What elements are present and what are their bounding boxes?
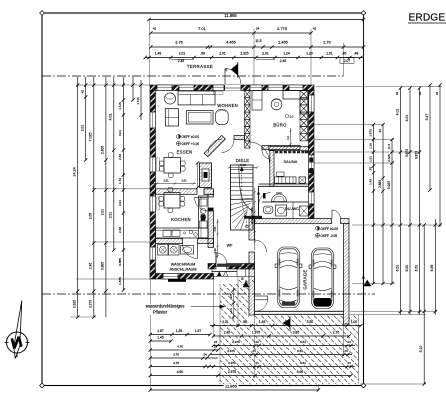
svg-text:3.76: 3.76 (173, 352, 179, 356)
bath door jamb marks (258, 193, 260, 196)
svg-text:18 Stg 17,5/28: 18 Stg 17,5/28 (250, 207, 254, 224)
svg-text:5.025: 5.025 (387, 181, 391, 189)
dash-dot line lower (section B-B) (42, 293, 375, 295)
svg-text:B: B (361, 276, 366, 279)
extension lines right side (316, 86, 442, 88)
wall segment wohnen-diele (234, 136, 245, 140)
terrace door swing arc (225, 69, 241, 85)
garage west wall lower (249, 252, 255, 315)
garage door entrance flag marker (289, 317, 291, 332)
svg-text:7.025: 7.025 (89, 133, 93, 142)
svg-text:1.26: 1.26 (176, 329, 183, 333)
buero south wall (262, 146, 300, 150)
bottom dimension total 11.865 (150, 389, 318, 391)
pillar kitchen wall east end (204, 189, 214, 195)
bottom dimension row 3.76 2.975 6.51 (150, 366, 355, 368)
east exterior wall (309, 91, 315, 219)
svg-text:4.01: 4.01 (395, 109, 399, 116)
svg-text:1.49: 1.49 (259, 320, 266, 324)
section marker B right (363, 280, 371, 286)
svg-text:6.51: 6.51 (300, 361, 306, 365)
sauna-bath dividing wall (259, 183, 309, 185)
window east 3 (309, 192, 315, 204)
svg-text:9.875: 9.875 (414, 151, 418, 159)
svg-text:2.76: 2.76 (333, 330, 340, 334)
svg-text:+8.5: +8.5 (229, 308, 233, 314)
svg-text:2.05: 2.05 (89, 213, 93, 220)
svg-text:7.01: 7.01 (198, 26, 207, 31)
svg-text:WF: WF (227, 244, 233, 248)
svg-text:2.975: 2.975 (227, 349, 235, 353)
svg-text:9.875: 9.875 (405, 149, 409, 157)
svg-text:2.01: 2.01 (219, 52, 226, 56)
sauna door swing arc (262, 151, 270, 159)
bath washbasin semicircle (272, 194, 287, 201)
kitchen wall mini dimension row (153, 183, 196, 185)
dash-dot line upper (terrace boundary) (42, 75, 344, 77)
laundry sink (181, 246, 194, 255)
vestibule door swing arc (249, 142, 270, 163)
diele mini dimension (229, 167, 257, 169)
svg-text:4.60: 4.60 (177, 370, 184, 374)
svg-text:1.74: 1.74 (118, 178, 122, 184)
wall hall west segment lower (208, 211, 214, 247)
bath sink counter (262, 201, 309, 203)
extension lines bottom (149, 279, 151, 391)
right dimension column 9.875 (419, 88, 421, 315)
top dimension row window openings (145, 57, 363, 59)
svg-text:1.20: 1.20 (306, 52, 313, 56)
svg-text:WOHNEN: WOHNEN (217, 103, 238, 108)
svg-text:3.775: 3.775 (277, 26, 288, 31)
svg-text:42: 42 (313, 27, 317, 31)
svg-text:24: 24 (344, 349, 348, 353)
svg-text:.45: .45 (342, 52, 347, 56)
garage north wall right part (341, 219, 350, 224)
entry south wall (227, 264, 255, 270)
right dimension column 4.01 a (400, 88, 402, 315)
svg-text:1.115: 1.115 (118, 102, 122, 110)
window north 5 (268, 85, 283, 91)
svg-text:6.51: 6.51 (405, 265, 409, 272)
sauna bench (slatted) (275, 177, 297, 183)
svg-text:3.76: 3.76 (173, 361, 179, 365)
svg-text:ESSEN: ESSEN (177, 150, 193, 155)
partition buero east (cross hatched boxes) (300, 91, 308, 141)
svg-text:2.625: 2.625 (73, 300, 77, 308)
right dimension column 4.01 b (409, 88, 411, 315)
svg-text:BÜRO: BÜRO (273, 123, 287, 128)
double door wohnen to diele arc (208, 139, 223, 153)
right dimension column 5.10 (423, 225, 425, 384)
buero mini level annotation (285, 114, 288, 117)
svg-text:6.51: 6.51 (300, 340, 306, 344)
window south laundry (163, 274, 178, 280)
svg-text:24: 24 (255, 361, 259, 365)
sauna small table (277, 172, 284, 176)
left dimension column 4.01 (113, 77, 115, 250)
north arrow compass (14, 301, 22, 359)
svg-text:24: 24 (347, 340, 351, 344)
svg-text:1.26: 1.26 (368, 143, 372, 149)
sofa left living (165, 109, 178, 126)
terrace entrance flag marker (237, 62, 239, 78)
svg-text:.76: .76 (368, 167, 372, 172)
window north 4 (250, 85, 262, 91)
svg-text:1.875: 1.875 (118, 277, 122, 285)
fireplace side dimension line (197, 163, 199, 188)
sauna interior lining row (275, 151, 308, 153)
garage level annotations OKFF (316, 226, 320, 230)
svg-text:2.01: 2.01 (81, 125, 85, 132)
svg-text:11.5: 11.5 (256, 39, 262, 43)
svg-text:2.01: 2.01 (179, 52, 186, 56)
svg-text:1.01: 1.01 (213, 226, 217, 232)
svg-text:42: 42 (153, 27, 157, 31)
bottom dimension row 24 2.975 24 6.51 24 (214, 345, 356, 347)
left dimension short columns (132, 77, 134, 100)
wall hall west segment upper (208, 194, 214, 197)
svg-text:2.51: 2.51 (109, 212, 113, 219)
stair walking line with arrow (242, 170, 247, 227)
right dimension column 6.99 (434, 219, 436, 315)
svg-text:1.115: 1.115 (136, 97, 140, 105)
svg-text:24: 24 (252, 349, 256, 353)
level annotation OKFF dining (177, 135, 181, 139)
extension lines left side (76, 84, 150, 86)
property boundary border (42, 13, 364, 386)
svg-text:3.885: 3.885 (118, 258, 122, 266)
buero office chair (271, 99, 282, 110)
top dimension row 7.01 / 3.775 (151, 32, 311, 34)
window west 2 (150, 157, 156, 172)
svg-text:.49: .49 (354, 52, 359, 56)
svg-text:1.975: 1.975 (252, 330, 260, 334)
svg-text:+9.5: +9.5 (229, 294, 233, 300)
bath washing machine (276, 205, 287, 216)
svg-text:B: B (240, 277, 245, 280)
threshold black bar west of garage top wall (244, 216, 262, 219)
right dimension column 5.47 (429, 85, 431, 190)
svg-text:4.455: 4.455 (226, 41, 236, 45)
radiator below north window (214, 92, 224, 95)
wohnen east mini dimension (290, 128, 292, 147)
radiator west essen (157, 158, 160, 171)
label wasserdurchlaessiges Pflaster with arrow (140, 304, 189, 309)
svg-text:2.01: 2.01 (118, 200, 122, 206)
svg-text:2.975: 2.975 (228, 370, 236, 374)
svg-text:3.885: 3.885 (101, 262, 105, 270)
svg-text:24: 24 (255, 340, 259, 344)
round armchair living (164, 93, 175, 104)
svg-text:42: 42 (81, 90, 85, 94)
svg-text:4.01: 4.01 (405, 115, 409, 122)
entrance marker triangles (217, 271, 222, 276)
right dimension column 5.025 (391, 140, 393, 284)
svg-text:ANSCHL.RAUM: ANSCHL.RAUM (170, 268, 197, 272)
kitchen counter right column (199, 196, 209, 238)
svg-text:1.01: 1.01 (163, 179, 169, 183)
svg-text:5.10: 5.10 (419, 346, 423, 353)
laundry door swing arc (183, 244, 198, 259)
svg-text:TERRASSE: TERRASSE (187, 64, 213, 69)
window north 1 (157, 85, 172, 91)
svg-text:2.975: 2.975 (228, 361, 236, 365)
car 2 in garage (309, 248, 336, 309)
right dimension column outer (439, 85, 441, 227)
svg-text:2.07: 2.07 (344, 59, 351, 63)
bottom dimension row 2.01 .96 1.49 5.50 1.00 (210, 325, 361, 327)
svg-text:1.49: 1.49 (155, 52, 162, 56)
svg-text:1.01: 1.01 (368, 156, 372, 162)
right dimension column cluster 1.875 (373, 125, 375, 284)
sauna heater (299, 177, 306, 183)
wall laundry north left (156, 239, 183, 244)
entrance door leaf and arc (215, 253, 217, 264)
svg-text:OKFF -0.05: OKFF -0.05 (321, 234, 338, 238)
radiator west kitchen (157, 197, 160, 210)
svg-text:2.46: 2.46 (118, 227, 122, 233)
washer and dryer (158, 245, 169, 256)
svg-text:1.45: 1.45 (157, 336, 164, 340)
svg-text:OKFF ±0.00: OKFF ±0.00 (182, 135, 200, 139)
partition buero west (cross hatched boxes) (245, 91, 251, 149)
svg-text:.99: .99 (200, 52, 205, 56)
svg-text:42: 42 (395, 92, 399, 96)
svg-text:2.46: 2.46 (89, 263, 93, 270)
armchair right living (216, 110, 229, 125)
svg-text:2.605: 2.605 (101, 146, 105, 154)
kitchen hob circles (189, 230, 193, 234)
svg-text:2.01: 2.01 (101, 209, 105, 216)
svg-text:6.51: 6.51 (414, 265, 418, 272)
svg-text:1.67: 1.67 (195, 329, 202, 333)
svg-text:42: 42 (418, 92, 422, 96)
svg-text:2.975: 2.975 (232, 340, 240, 344)
svg-text:2.315: 2.315 (240, 52, 248, 56)
svg-text:wasserdurchlässiges: wasserdurchlässiges (146, 304, 185, 309)
dining table with chairs (164, 158, 181, 174)
WF vertical dimension column (217, 219, 219, 258)
svg-text:2.45: 2.45 (178, 59, 185, 63)
sauna west wall (270, 151, 274, 187)
svg-text:1.875: 1.875 (368, 129, 372, 137)
left dimension column 14.24 (77, 77, 79, 317)
left dimension column 7.025 (93, 77, 95, 317)
bottom dimension row 4.60 2.975 6.99 (150, 375, 351, 377)
bath WC (263, 206, 273, 214)
svg-text:42: 42 (435, 92, 439, 96)
entry level annotation column (233, 287, 235, 320)
entrance steps (212, 267, 237, 272)
bottom dimension row 3.76 / 2.975 24 6.51 (150, 357, 218, 359)
svg-text:2.45: 2.45 (280, 59, 287, 63)
svg-text:GARAGE: GARAGE (303, 269, 308, 289)
svg-text:2.0: 2.0 (290, 114, 294, 118)
west exterior wall (150, 91, 156, 280)
staircase (231, 165, 254, 230)
svg-text:6.99: 6.99 (297, 370, 304, 374)
svg-text:2.01: 2.01 (262, 52, 269, 56)
left dimension column 1.115 cluster (122, 77, 124, 290)
garage side door leaf bottom left (255, 296, 268, 300)
svg-text:.96: .96 (242, 320, 247, 324)
svg-text:SAUNA: SAUNA (283, 160, 297, 164)
svg-text:5.47: 5.47 (425, 114, 429, 121)
svg-text:1.00: 1.00 (351, 320, 358, 324)
svg-text:11.865: 11.865 (225, 384, 238, 389)
svg-text:.51: .51 (378, 129, 382, 134)
svg-text:DU./WC: DU./WC (285, 207, 299, 211)
svg-text:2.39: 2.39 (213, 248, 217, 254)
svg-text:2.46: 2.46 (118, 154, 122, 160)
svg-text:KOCHEN: KOCHEN (171, 217, 191, 222)
bath west wall line (258, 186, 260, 218)
fireplace chimney block (200, 163, 212, 188)
svg-text:2.025: 2.025 (387, 154, 391, 162)
wall laundry north right (198, 239, 214, 244)
window east 1 (309, 95, 315, 112)
svg-text:2.455: 2.455 (278, 41, 288, 45)
threshold marks laundry (168, 279, 186, 282)
window west 1 (150, 112, 156, 128)
svg-text:OKFF +0.16: OKFF +0.16 (182, 142, 200, 146)
svg-text:24: 24 (214, 340, 218, 344)
window west 3 (150, 196, 156, 212)
garage west door swing arc (255, 240, 267, 252)
garage west wall upper (249, 219, 255, 240)
svg-text:6.51: 6.51 (395, 265, 399, 272)
coffee table living (186, 111, 213, 124)
sauna north wall (269, 146, 309, 150)
bottom dimension row 4.76 (150, 349, 218, 351)
svg-text:5.50: 5.50 (307, 320, 314, 324)
extension lines top (149, 20, 151, 85)
svg-text:2.885: 2.885 (378, 180, 382, 188)
kitchen door swing arc (195, 198, 209, 212)
svg-text:3.275: 3.275 (89, 300, 93, 308)
kitchen table with chairs (164, 193, 180, 209)
garage service door arc (331, 210, 333, 219)
top dimension row 3.76 4.455 2.455 2.70 (151, 46, 364, 48)
window north 6 (289, 85, 303, 91)
garage door (sectional) bottom (255, 310, 344, 312)
svg-text:1.43: 1.43 (368, 179, 372, 185)
svg-text:ERDGESCHOSS: ERDGESCHOSS (409, 13, 446, 24)
svg-text:Pflaster: Pflaster (153, 310, 168, 315)
svg-text:1.67: 1.67 (157, 329, 164, 333)
window north 2 (179, 85, 194, 91)
svg-text:11.865: 11.865 (224, 13, 237, 18)
svg-text:3.85: 3.85 (293, 330, 300, 334)
driveway boundary line (219, 284, 221, 384)
svg-text:2.70: 2.70 (323, 41, 330, 45)
svg-text:4.01: 4.01 (109, 114, 113, 121)
svg-text:1.01: 1.01 (181, 179, 187, 183)
svg-text:6.99: 6.99 (430, 265, 434, 272)
window north 3 (213, 85, 224, 91)
svg-text:24: 24 (347, 361, 351, 365)
left dimension column 2.605 (105, 77, 107, 317)
car 1 in garage (275, 247, 302, 308)
svg-text:1.24: 1.24 (283, 52, 290, 56)
kitchen counter bottom row (156, 228, 209, 238)
wall kitchen north (156, 189, 198, 195)
window east 2 (309, 155, 315, 170)
bottom dimension row 1.45 (150, 340, 171, 342)
svg-text:11.5: 11.5 (387, 143, 391, 149)
entrance threshold mat (217, 264, 242, 267)
north exterior wall (150, 85, 314, 91)
window west 4 (150, 247, 156, 260)
svg-text:OKFF ±0.00: OKFF ±0.00 (321, 227, 339, 231)
svg-text:4.76: 4.76 (177, 344, 183, 348)
svg-text:2.45: 2.45 (224, 330, 231, 334)
svg-text:14.24: 14.24 (73, 167, 77, 177)
sofa top living (178, 91, 215, 105)
buero desk (283, 91, 309, 100)
top dimension row total 11.865 (149, 19, 364, 21)
svg-text:3.01: 3.01 (118, 130, 122, 136)
south wall laundry (156, 274, 214, 280)
garage north wall left part (255, 219, 332, 224)
svg-text:1.0: 1.0 (286, 136, 290, 140)
bath door swing arc (259, 193, 271, 205)
stair annotation dimension column (254, 188, 256, 250)
svg-text:2.01: 2.01 (222, 320, 229, 324)
bath shower corner box (300, 206, 309, 216)
svg-text:WASCHRAUM: WASCHRAUM (171, 263, 195, 267)
svg-text:6.51: 6.51 (297, 349, 303, 353)
svg-text:24: 24 (203, 352, 207, 356)
bottom dimension row 1.67 1.26 1.67 (150, 334, 210, 336)
bottom dimension row 2.45 1.975 3.85 2.76 (214, 335, 350, 337)
right dimension column 2.885 (382, 125, 384, 284)
garage east wall (344, 224, 350, 324)
section marker B left (243, 281, 249, 288)
svg-text:1.01: 1.01 (326, 52, 333, 56)
diagonal wall at diele (204, 135, 225, 156)
svg-text:3.76: 3.76 (175, 41, 182, 45)
terrace door opening (225, 85, 242, 91)
left dimension column short (85, 77, 87, 160)
kitchen sink double basin (163, 230, 171, 237)
svg-text:24: 24 (256, 27, 260, 31)
buero side shelf (252, 91, 262, 111)
threshold hall (208, 208, 214, 211)
